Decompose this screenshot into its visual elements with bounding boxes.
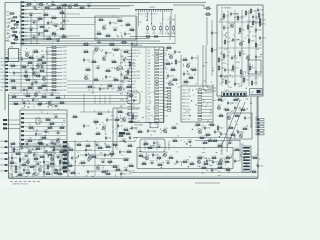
junction dots TM <box>76 5 114 23</box>
svg-text:71: 71 <box>19 32 21 34</box>
resistor J2-R10 <box>125 132 132 135</box>
resistor ML-R22 <box>21 65 28 68</box>
svg-text:Q736: Q736 <box>243 127 247 129</box>
wire CN201 drop 1 <box>138 12 140 26</box>
svg-text:07: 07 <box>168 145 170 147</box>
diode D101 <box>16 21 19 23</box>
svg-text:C578: C578 <box>183 58 187 60</box>
wire B2 v x181 <box>180 55 182 86</box>
wire P v1 <box>221 140 223 155</box>
svg-text:KK: KK <box>170 26 172 28</box>
resistor R101 <box>6 15 18 18</box>
svg-text:Q101: Q101 <box>124 158 128 160</box>
resistor ML-R3 <box>27 61 34 64</box>
wire CN201 drop 5 <box>170 12 172 36</box>
svg-text:ABL: ABL <box>120 105 123 108</box>
B2 row 1 <box>182 89 212 91</box>
wire AV vert 2 <box>227 10 229 86</box>
resistor MB-R3 <box>121 40 128 43</box>
svg-text:L661: L661 <box>122 40 126 42</box>
resistor AV-Rv0 <box>223 13 229 20</box>
transistor PW-Q2 <box>28 149 32 154</box>
wire mid bus 1 <box>130 36 175 38</box>
svg-text:4K: 4K <box>237 99 239 101</box>
flyback T444 <box>240 144 251 172</box>
svg-text:L897: L897 <box>63 65 67 67</box>
resistor N-R14 <box>101 170 108 173</box>
resistor AV-Rv16 <box>255 42 261 49</box>
svg-text:L870: L870 <box>157 145 161 147</box>
svg-text:0K: 0K <box>160 23 162 25</box>
svg-text:Q104: Q104 <box>226 70 230 72</box>
svg-text:C628: C628 <box>213 50 217 52</box>
title dashes <box>10 181 40 183</box>
svg-text:Q485: Q485 <box>197 159 201 161</box>
resistor SA-R0 <box>172 139 179 142</box>
svg-text:47: 47 <box>122 56 124 58</box>
IC U101 pin 6 row <box>128 65 165 68</box>
capacitor N2-C3 <box>85 153 92 158</box>
svg-text:K2: K2 <box>41 137 43 139</box>
capacitor N-C5 <box>104 153 111 158</box>
net label IC-left 2 <box>120 56 124 58</box>
capacitor MC-C22 <box>99 87 106 92</box>
svg-text:L738 2.2K: L738 2.2K <box>182 109 191 111</box>
resistor AV-Rv31 <box>251 80 257 87</box>
resistor AV-Rv2 <box>237 15 243 22</box>
resistor TM-R0 <box>98 18 105 21</box>
resistor AV2-Rv4 <box>218 65 224 72</box>
svg-text:C186: C186 <box>131 138 135 140</box>
net label L7 <box>1 79 9 82</box>
resistor MB-R0 <box>83 42 90 45</box>
wire TL v2 <box>36 20 38 44</box>
capacitor MC-Ch9 <box>122 58 127 62</box>
svg-text:D772: D772 <box>30 165 34 167</box>
svg-text:27: 27 <box>50 105 52 107</box>
svg-text:07: 07 <box>245 37 247 39</box>
svg-text:D857: D857 <box>63 82 67 84</box>
resistor N-R0 <box>76 143 83 146</box>
svg-text:C254: C254 <box>261 38 265 40</box>
svg-text:R371 2.2K: R371 2.2K <box>182 119 191 121</box>
svg-text:K2: K2 <box>41 112 43 114</box>
resistor R201 <box>152 25 156 35</box>
capacitor J2-C12 <box>131 126 138 131</box>
wire N h5 <box>85 170 135 172</box>
resistor R403 <box>46 57 67 59</box>
resistor ML-R20 <box>28 56 35 59</box>
net label IC-left 11 <box>120 112 125 114</box>
svg-text:41: 41 <box>42 63 44 65</box>
B2 row 2 <box>182 92 212 94</box>
resistor CP-R9 <box>49 122 56 125</box>
wire L v <box>239 140 241 160</box>
resistor CP-R4 <box>41 136 48 139</box>
svg-text:L684: L684 <box>49 23 53 25</box>
wire J v x84 <box>83 94 85 112</box>
B2 row 7 <box>182 109 212 111</box>
wire CN101 net 5 <box>24 16 120 18</box>
svg-text:11: 11 <box>196 89 198 91</box>
svg-text:11: 11 <box>237 150 239 152</box>
svg-text:R1: R1 <box>112 89 114 91</box>
resistor J3-R2 <box>76 132 83 135</box>
svg-text:1uF: 1uF <box>148 115 151 117</box>
resistor TMtop-R2 <box>79 6 86 9</box>
svg-text:1uF: 1uF <box>148 100 151 102</box>
capacitor P-C11 <box>257 164 263 169</box>
svg-text:1K: 1K <box>20 17 22 19</box>
resistor MC-Rv15 <box>127 69 133 76</box>
svg-text:K1: K1 <box>239 151 241 153</box>
svg-text:K4: K4 <box>222 79 224 81</box>
resistor N-R3 <box>80 161 87 164</box>
CPU box <box>20 108 67 146</box>
svg-text:CN201: CN201 <box>149 7 156 9</box>
svg-text:L126: L126 <box>222 35 226 37</box>
svg-text:C168: C168 <box>261 20 265 22</box>
svg-text:RK: RK <box>226 156 228 158</box>
svg-text:R820: R820 <box>218 144 222 146</box>
svg-text:Q490: Q490 <box>98 112 102 114</box>
capacitor S-C2 <box>152 153 159 158</box>
svg-text:C7: C7 <box>219 132 221 134</box>
svg-text:71: 71 <box>187 72 189 74</box>
svg-text:D946: D946 <box>94 78 98 80</box>
svg-text:R7: R7 <box>176 84 178 86</box>
capacitor ML-C27 <box>31 82 38 87</box>
svg-text:Q207: Q207 <box>190 162 194 164</box>
capacitor TL-Ch0 <box>29 13 34 17</box>
transistor MC-Q14 <box>116 66 120 71</box>
svg-text:CK: CK <box>113 39 115 41</box>
resistor AV-Rv18 <box>223 53 229 60</box>
svg-text:R567: R567 <box>236 84 240 86</box>
capacitor TL-Ch14 <box>56 39 61 43</box>
svg-text:C725: C725 <box>225 16 229 18</box>
wire mid bus 4 <box>12 43 175 45</box>
wire mid bus 5 <box>21 45 137 47</box>
wire ML v3 <box>46 48 48 92</box>
svg-text:Q844: Q844 <box>106 155 110 157</box>
resistor TM-R6 <box>96 32 103 35</box>
resistor ML-R15 <box>10 64 17 67</box>
svg-text:R376: R376 <box>126 34 130 36</box>
svg-text:RK: RK <box>134 141 136 143</box>
svg-text:L178: L178 <box>71 171 75 173</box>
svg-text:14: 14 <box>23 94 25 96</box>
B2 row 9 <box>182 115 212 117</box>
svg-text:Q583: Q583 <box>41 55 45 57</box>
resistor R108 <box>6 41 16 44</box>
CRT socket pins <box>255 117 264 135</box>
svg-text:Q974: Q974 <box>95 143 99 145</box>
svg-text:C369: C369 <box>257 57 261 59</box>
wire AV vert 4 <box>241 10 243 86</box>
IC U101 pin 23 row <box>128 118 165 120</box>
svg-text:R4: R4 <box>153 92 155 94</box>
transistor CP-Q5 <box>56 138 60 143</box>
svg-text:SCL: SCL <box>120 75 123 77</box>
svg-text:47: 47 <box>165 53 167 55</box>
connector CN101 pin 9 <box>22 31 29 34</box>
svg-text:Q841: Q841 <box>138 130 142 132</box>
resistor TL-R5 <box>39 25 46 28</box>
transistor ML-Q4 <box>36 63 40 68</box>
resistor R404 <box>46 61 67 63</box>
svg-text:D503: D503 <box>77 143 81 145</box>
svg-text:Q939: Q939 <box>219 158 223 160</box>
resistor AI-R12 <box>13 102 20 105</box>
capacitor TL-Ch3 <box>32 35 37 39</box>
svg-text:C265: C265 <box>189 76 193 78</box>
resistor B2top-R6 <box>183 80 190 83</box>
svg-text:L939: L939 <box>259 166 263 168</box>
svg-text:AUDIO: AUDIO <box>150 145 156 148</box>
svg-text:L226: L226 <box>6 26 10 28</box>
svg-text:47: 47 <box>113 78 115 80</box>
svg-text:D951: D951 <box>241 54 245 56</box>
transistor AV-Q21 <box>246 55 250 60</box>
svg-text:Q103: Q103 <box>150 161 154 163</box>
capacitor AI-C9 <box>32 98 39 103</box>
svg-text:Q828: Q828 <box>163 152 167 154</box>
wire CN201 drop 2 <box>146 12 148 20</box>
resistor PW-Rv18 <box>47 164 53 171</box>
svg-text:C727: C727 <box>63 72 67 74</box>
wire MC v x93 <box>92 50 94 92</box>
resistor AV2-Rv3 <box>259 17 265 24</box>
net label L3 <box>1 64 9 67</box>
resistor PW2-R3 <box>39 155 46 158</box>
svg-text:02: 02 <box>58 146 60 148</box>
wire MC h y80 <box>67 80 130 82</box>
svg-text:07: 07 <box>123 69 125 71</box>
resistor PW-R21 <box>17 173 24 176</box>
capacitor N-C9 <box>119 150 126 155</box>
resistor TL-R13 <box>51 32 58 35</box>
svg-text:1uF: 1uF <box>148 81 151 83</box>
svg-text:Q187: Q187 <box>254 78 258 80</box>
svg-text:14: 14 <box>120 32 122 34</box>
wire CN101 net 8 <box>24 27 38 29</box>
bottom short line <box>195 182 220 184</box>
IC U101 pin 9 row <box>128 75 165 77</box>
svg-text:L501: L501 <box>245 80 249 82</box>
capacitor PW2-Ch5 <box>56 155 61 159</box>
resistor L-R6 <box>240 108 247 111</box>
svg-text:Q590: Q590 <box>213 33 217 35</box>
wire J v <box>116 108 118 150</box>
B2 row 3 <box>182 96 212 98</box>
svg-text:VT: VT <box>25 10 27 12</box>
wire AV left vbus <box>206 17 208 45</box>
capacitor ML-Ch14 <box>22 88 27 92</box>
solder pads and wire stubs region 12 <box>202 93 252 139</box>
svg-text:X1: X1 <box>41 121 43 123</box>
svg-text:21: 21 <box>64 16 66 18</box>
wire CN101 net 12 <box>24 42 40 44</box>
svg-text:Q174: Q174 <box>167 46 171 48</box>
transistor TMtop-Q0 <box>68 4 72 9</box>
svg-text:D800: D800 <box>241 108 245 110</box>
svg-text:Q569: Q569 <box>106 69 110 71</box>
capacitor AV-C27 <box>255 70 262 75</box>
svg-text:R969: R969 <box>236 62 240 64</box>
svg-text:D813: D813 <box>130 28 134 30</box>
svg-text:R812: R812 <box>63 47 67 49</box>
svg-text:C509: C509 <box>129 120 133 122</box>
resistor N-R8 <box>112 143 119 146</box>
IC U101 footer <box>134 123 143 129</box>
svg-text:Q285: Q285 <box>34 92 38 94</box>
resistor R411 <box>46 86 67 88</box>
capacitor MC-Ch12 <box>96 66 101 70</box>
test-point box <box>127 92 140 104</box>
parts on bus y36 <box>145 36 159 38</box>
capacitor AV-C10 <box>255 28 262 33</box>
resistor TT-R2 <box>38 2 45 5</box>
capacitor SY-Ch3 <box>157 145 162 149</box>
svg-text:C128: C128 <box>36 74 40 76</box>
wire mid bus 3 <box>21 40 160 42</box>
svg-text:V-OUT: V-OUT <box>183 84 188 86</box>
svg-text:Q336: Q336 <box>228 141 232 143</box>
IC U101 pin 14 row <box>128 90 165 92</box>
resistor N-R19 <box>70 171 77 174</box>
svg-text:C179: C179 <box>246 118 250 120</box>
capacitor ML-C19 <box>21 57 28 62</box>
svg-text:72: 72 <box>246 99 248 101</box>
svg-text:D447 0.1: D447 0.1 <box>182 89 189 91</box>
capacitor K-C1 <box>147 129 153 134</box>
wire CN101 net 7 <box>24 24 95 26</box>
svg-text:C785: C785 <box>177 62 181 64</box>
resistor P-R2 <box>211 156 218 159</box>
capacitor AV-C13 <box>232 38 239 43</box>
svg-text:C938: C938 <box>257 30 261 32</box>
resistor ML-R17 <box>10 79 17 82</box>
net label L2 <box>1 61 9 64</box>
resistor MC-R8 <box>111 60 118 63</box>
connector pin LM2 <box>3 123 20 125</box>
resistor R335 <box>211 47 217 54</box>
svg-text:D749: D749 <box>259 10 263 12</box>
resistor L-R9 <box>234 114 241 117</box>
svg-text:Q771: Q771 <box>102 125 106 127</box>
svg-text:C529: C529 <box>234 68 238 70</box>
resistor MC-R23 <box>107 84 114 87</box>
wire S drop1 <box>144 140 146 150</box>
IC U101 pin 5 row <box>128 61 165 64</box>
svg-text:R7: R7 <box>124 120 126 122</box>
svg-text:C745: C745 <box>6 30 10 32</box>
svg-text:R808: R808 <box>210 123 214 125</box>
net label L1 <box>1 57 9 60</box>
svg-text:C526: C526 <box>108 160 112 162</box>
svg-text:Q750: Q750 <box>92 155 96 157</box>
wire N v x75 <box>74 140 76 176</box>
svg-text:1uF: 1uF <box>165 78 168 80</box>
resistor TL-R18 <box>61 35 68 38</box>
svg-text:C4: C4 <box>14 166 16 168</box>
svg-text:R995: R995 <box>238 33 242 35</box>
svg-text:Q703: Q703 <box>246 55 250 57</box>
resistor P-R9 <box>225 168 232 171</box>
wire bus stubs <box>95 96 110 105</box>
svg-text:C375: C375 <box>22 163 26 165</box>
resistor PW-R25 <box>10 142 17 145</box>
svg-text:L699: L699 <box>6 37 10 39</box>
svg-text:D170: D170 <box>106 34 110 36</box>
capacitor MC-C5 <box>83 58 90 63</box>
IC U101 pin 17 row <box>128 100 165 102</box>
svg-text:L386: L386 <box>252 170 256 172</box>
svg-text:SCL: SCL <box>25 32 28 34</box>
IC U201 <box>9 47 19 62</box>
svg-text:VIDEO IN: VIDEO IN <box>132 50 140 52</box>
svg-text:D222: D222 <box>89 172 93 174</box>
resistor ML-R8 <box>39 69 46 72</box>
resistor PW2-R7 <box>21 163 28 166</box>
connector CN201 body <box>135 7 173 10</box>
svg-text:C205: C205 <box>44 13 48 15</box>
wire TL v1 <box>30 14 32 44</box>
resistor TL-R9 <box>43 29 50 32</box>
connector pin LM1 <box>3 119 20 121</box>
svg-text:D508: D508 <box>253 83 257 85</box>
svg-text:D996: D996 <box>127 150 131 152</box>
capacitor TP-C1 <box>132 99 137 101</box>
svg-text:R680: R680 <box>234 17 238 19</box>
IF section box <box>95 16 136 40</box>
wire long bus 2 <box>9 98 128 100</box>
wire CN101 net 2 <box>24 5 130 7</box>
svg-text:Q515: Q515 <box>22 101 26 103</box>
net label L6 <box>1 75 9 78</box>
svg-text:01: 01 <box>151 115 153 117</box>
net label BL5 <box>1 164 8 167</box>
resistor TM-R7 <box>105 34 112 37</box>
capacitor CP-Ch13 <box>50 141 55 145</box>
svg-text:CRT: CRT <box>255 117 258 119</box>
svg-text:R918: R918 <box>84 50 88 52</box>
svg-text:KEY1: KEY1 <box>1 83 5 85</box>
svg-text:C875: C875 <box>80 6 84 8</box>
dense column N <box>63 141 67 173</box>
svg-text:C156: C156 <box>53 142 57 144</box>
svg-text:D992: D992 <box>260 15 264 17</box>
resistor AV-Rv9 <box>247 24 253 31</box>
svg-text:R416: R416 <box>26 171 30 173</box>
svg-text:C0: C0 <box>88 61 90 63</box>
svg-text:C589: C589 <box>23 59 27 61</box>
power sub-box <box>54 150 67 170</box>
resistor N2-R8 <box>105 172 112 175</box>
svg-text:C204: C204 <box>228 87 232 89</box>
solder pads and wire stubs region 16 <box>139 150 235 168</box>
svg-text:7K: 7K <box>34 0 36 2</box>
resistor B2top-R3 <box>191 68 198 71</box>
resistor B2top-R5 <box>188 76 195 79</box>
resistor J2-R0 <box>117 110 124 113</box>
resistor R408 <box>46 75 67 77</box>
AV sub-box <box>248 60 261 74</box>
wire TM h y14 <box>60 13 80 15</box>
capacitor P-C5 <box>234 159 241 164</box>
capacitor CP-Ch11 <box>44 130 49 134</box>
